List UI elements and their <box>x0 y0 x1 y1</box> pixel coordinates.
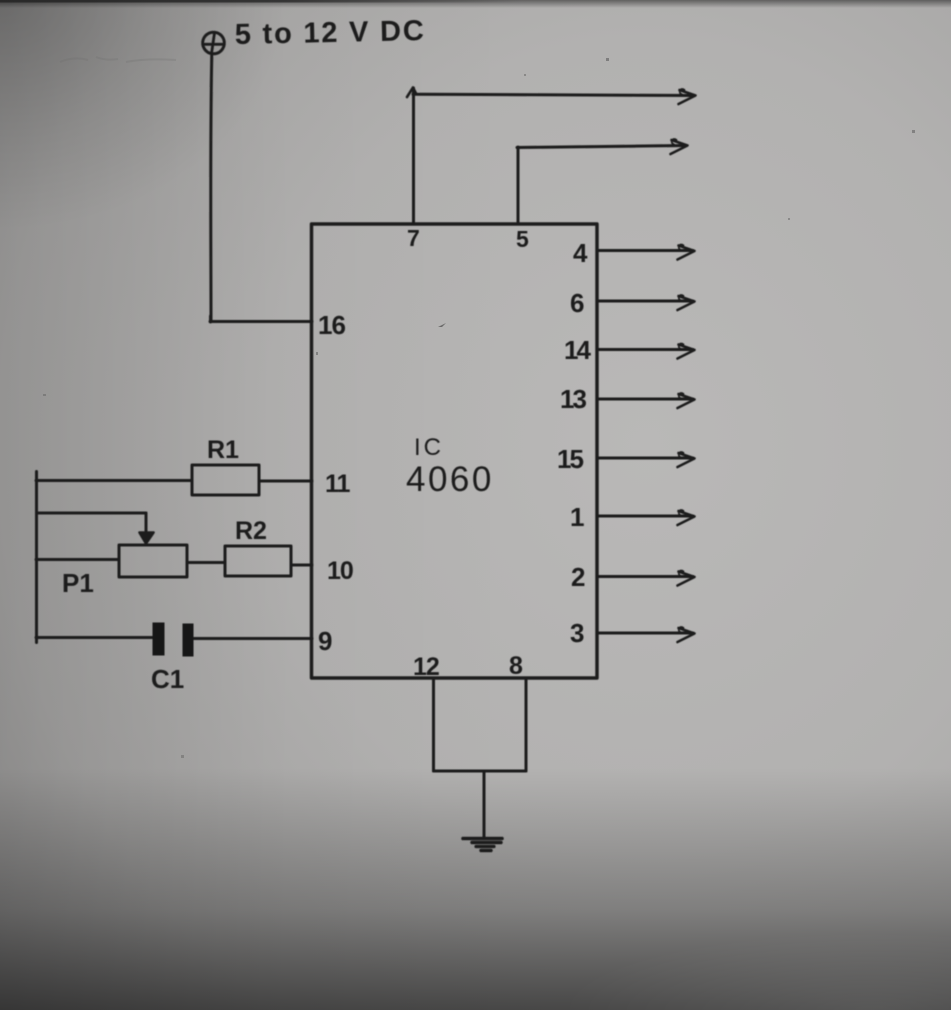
svg-text:12: 12 <box>413 653 439 681</box>
svg-text:7: 7 <box>407 225 420 251</box>
svg-text:R1: R1 <box>207 436 239 464</box>
svg-text:IC: IC <box>414 434 444 461</box>
svg-text:P1: P1 <box>62 568 94 598</box>
svg-text:10: 10 <box>327 557 353 585</box>
svg-text:5: 5 <box>516 226 529 252</box>
svg-text:4: 4 <box>573 238 588 268</box>
svg-text:13: 13 <box>560 384 586 414</box>
svg-text:4060: 4060 <box>406 460 494 499</box>
svg-text:R2: R2 <box>235 517 267 545</box>
svg-text:8: 8 <box>509 652 523 680</box>
svg-text:14: 14 <box>564 335 591 365</box>
svg-text:16: 16 <box>318 310 345 340</box>
svg-text:15: 15 <box>557 444 583 474</box>
svg-text:6: 6 <box>570 288 584 318</box>
svg-text:C1: C1 <box>151 664 184 694</box>
svg-text:2: 2 <box>571 562 585 592</box>
svg-text:5 to 12 V DC: 5 to 12 V DC <box>234 15 425 51</box>
svg-text:1: 1 <box>570 502 584 532</box>
svg-text:11: 11 <box>325 470 351 498</box>
svg-text:3: 3 <box>570 618 584 648</box>
svg-text:9: 9 <box>318 626 332 656</box>
